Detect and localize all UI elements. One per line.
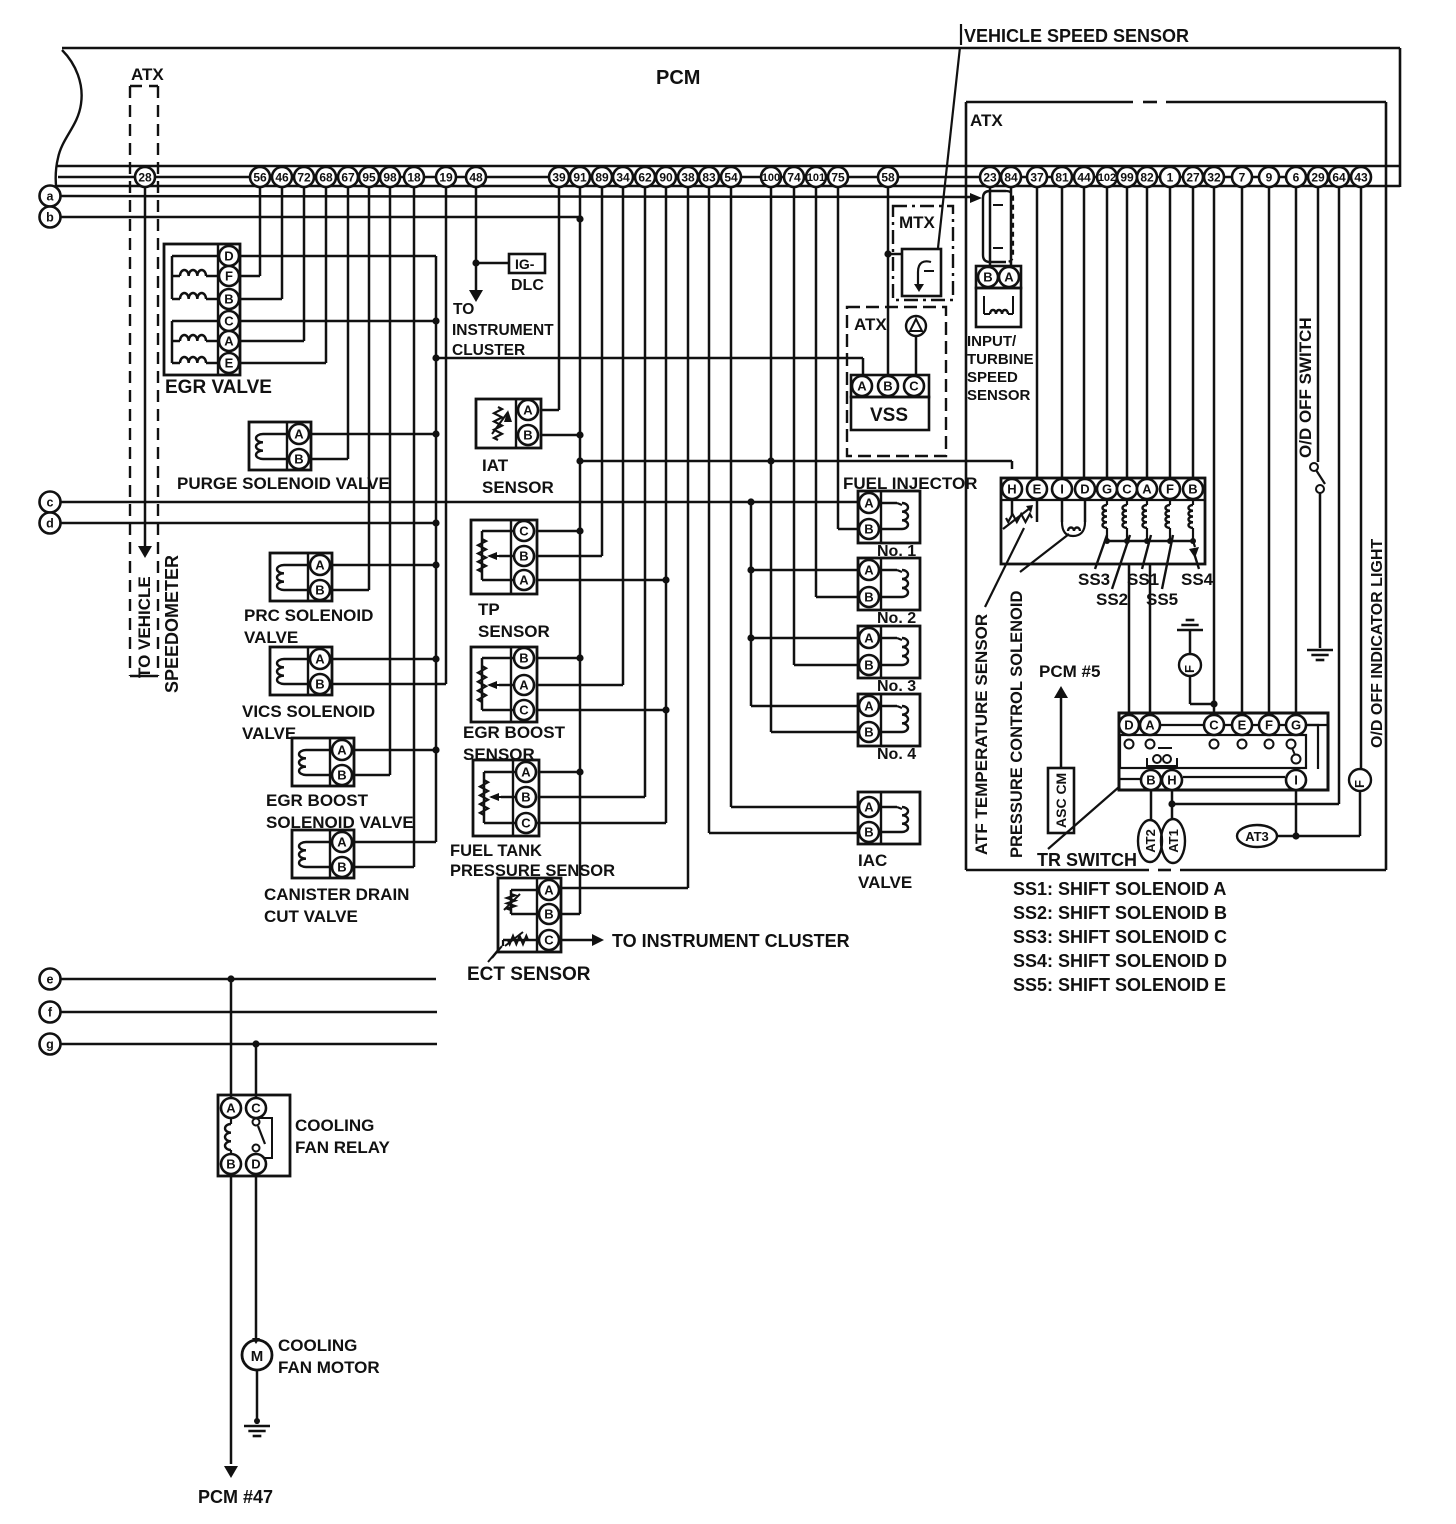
svg-text:7: 7 xyxy=(1239,170,1246,184)
svg-text:O/D OFF INDICATOR LIGHT: O/D OFF INDICATOR LIGHT xyxy=(1369,539,1386,748)
svg-text:100: 100 xyxy=(762,172,780,184)
wire: TR I to AT3 line xyxy=(1292,790,1299,840)
PCM pin 102 xyxy=(1097,167,1117,187)
TR switch pin E xyxy=(1232,715,1252,735)
fuel injector No. 4 pin A xyxy=(859,696,879,716)
shift solenoid coil under A xyxy=(1143,499,1151,544)
PRC solenoid valve box xyxy=(270,553,332,601)
svg-text:SENSOR: SENSOR xyxy=(967,387,1031,404)
input/turbine connector strip xyxy=(976,266,1021,288)
PCM pin 81 xyxy=(1052,167,1072,187)
wire: fan motor to ground xyxy=(254,1370,260,1424)
svg-text:81: 81 xyxy=(1055,170,1069,184)
svg-text:101: 101 xyxy=(807,172,825,184)
SS5 label xyxy=(1146,590,1178,609)
PCM pin 56 xyxy=(250,167,270,187)
svg-text:67: 67 xyxy=(341,170,355,184)
TP pin C xyxy=(514,521,534,541)
ASC CM box xyxy=(1048,768,1074,833)
svg-text:No. 2: No. 2 xyxy=(877,610,916,627)
TR switch pin C xyxy=(1204,715,1224,735)
VICS solenoid pin B xyxy=(310,674,330,694)
TR switch contact at x=1242 xyxy=(1238,740,1247,749)
PCM pin 58 xyxy=(878,167,898,187)
PCM pin 74 xyxy=(784,167,804,187)
PCM pin 48 xyxy=(466,167,486,187)
svg-text:A: A xyxy=(864,800,874,815)
PCM pin 27 xyxy=(1183,167,1203,187)
svg-text:B: B xyxy=(523,428,532,443)
svg-text:44: 44 xyxy=(1077,170,1091,184)
ECT pin C xyxy=(539,930,559,950)
svg-text:ATX: ATX xyxy=(970,111,1003,130)
svg-text:A: A xyxy=(1142,482,1152,497)
O/D OFF INDICATOR LIGHT label (vertical) xyxy=(1369,539,1386,748)
wire: VICS A to power node xyxy=(332,655,440,662)
EGR valve pin E xyxy=(219,353,239,373)
SS1 label xyxy=(1127,570,1159,589)
fuel injector No. 2 box xyxy=(858,558,920,610)
svg-text:F: F xyxy=(225,269,233,284)
PCM pin 90 xyxy=(656,167,676,187)
MTX speedometer pickup box xyxy=(902,249,941,296)
SS5 pointer xyxy=(1162,535,1173,589)
svg-text:C: C xyxy=(519,703,529,718)
ECT sensor box xyxy=(498,878,561,952)
PRC solenoid pin A xyxy=(310,555,330,575)
wire: EGR D to power node xyxy=(240,255,436,258)
MTX box (dash-dot) xyxy=(893,206,953,300)
TR switch pin I xyxy=(1286,770,1306,790)
wire: ASC CM to PCM #5 (arrow up) xyxy=(1054,686,1068,768)
svg-text:37: 37 xyxy=(1030,170,1044,184)
svg-text:B: B xyxy=(864,658,873,673)
canister drain cut valve box xyxy=(292,830,354,878)
cooling fan relay box xyxy=(218,1095,290,1176)
svg-text:95: 95 xyxy=(362,170,376,184)
wire: pin 72 to EGR A xyxy=(240,187,304,341)
IAC pin A xyxy=(859,797,879,817)
svg-text:INSTRUMENT: INSTRUMENT xyxy=(452,322,554,339)
AT2 oval xyxy=(1138,820,1162,862)
svg-text:G: G xyxy=(1291,718,1301,733)
wire: pin 29 to O/D off switch xyxy=(1317,187,1320,462)
EGR valve pin C xyxy=(219,311,239,331)
wire: injector supply chain xyxy=(747,502,858,706)
wire: pin 48 to IG-DLC and instrument cluster xyxy=(469,187,509,302)
svg-text:C: C xyxy=(1209,718,1219,733)
wire: pin 6 to TR G xyxy=(1295,187,1298,715)
PCM pin 72 xyxy=(294,167,314,187)
input/turbine pin A xyxy=(999,267,1019,287)
svg-text:90: 90 xyxy=(659,170,673,184)
wire: circled F to TR switch C xyxy=(1190,676,1218,708)
wire: pin 83 to IAC B xyxy=(709,187,858,833)
VICS solenoid valve box xyxy=(270,647,332,695)
svg-text:A: A xyxy=(523,403,533,418)
PCM pin 95 xyxy=(359,167,379,187)
wire: pin 56 to EGR F xyxy=(240,187,260,276)
TP pin B xyxy=(514,546,534,566)
wire: pin 18 to canister B xyxy=(354,187,414,867)
svg-text:b: b xyxy=(46,211,54,225)
svg-text:A: A xyxy=(224,334,234,349)
wire: EGR C to power node xyxy=(240,317,440,324)
svg-text:SS5: SHIFT SOLENOID E: SS5: SHIFT SOLENOID E xyxy=(1013,975,1226,995)
wire: pin 43 to O/D indicator lamp xyxy=(1360,187,1363,769)
fuel injector No. 3 pin A xyxy=(859,628,879,648)
VICS solenoid pin A xyxy=(310,649,330,669)
shift solenoid coil under F xyxy=(1166,499,1174,544)
svg-text:62: 62 xyxy=(638,170,652,184)
svg-text:6: 6 xyxy=(1293,170,1300,184)
wire: pin 102 to block G xyxy=(1106,187,1109,479)
wire: pin 27 to block B xyxy=(1192,187,1195,479)
EGR BOOST SOLENOID VALVE label xyxy=(266,791,414,832)
pressure control solenoid pointer xyxy=(1020,534,1069,572)
fuel injector No. 4 label xyxy=(877,746,916,763)
wire: pin 74 to injector No.3 B xyxy=(794,187,858,665)
EGR BOOST SENSOR label xyxy=(463,723,566,764)
svg-text:C: C xyxy=(519,524,529,539)
svg-text:IAT: IAT xyxy=(482,456,509,475)
cooling fan relay pin B xyxy=(221,1154,241,1174)
EGR boost solenoid pin B xyxy=(332,765,352,785)
VSS body box xyxy=(851,397,929,430)
circled F (left) xyxy=(1179,654,1201,676)
svg-text:B: B xyxy=(519,549,528,564)
svg-text:B: B xyxy=(883,379,892,394)
svg-text:AT3: AT3 xyxy=(1245,829,1269,844)
svg-text:A: A xyxy=(1145,718,1155,733)
wire: PRC A to power node xyxy=(332,561,440,568)
ATX box (VSS, dashed) xyxy=(847,307,946,456)
svg-text:DLC: DLC xyxy=(511,277,544,294)
wire: TR H to AT1 and pin 64 xyxy=(1168,790,1175,819)
svg-text:G: G xyxy=(1102,482,1112,497)
svg-text:H: H xyxy=(1007,482,1016,497)
PCM label xyxy=(656,67,700,89)
svg-text:82: 82 xyxy=(1140,170,1154,184)
svg-text:PRC SOLENOID: PRC SOLENOID xyxy=(244,606,373,625)
wire: pin 90 vref vertical xyxy=(537,187,666,823)
svg-text:B: B xyxy=(337,860,346,875)
SS2 pointer xyxy=(1112,535,1130,589)
cooling fan relay coil xyxy=(225,1118,231,1154)
EGR boost sensor box xyxy=(471,647,537,722)
svg-text:38: 38 xyxy=(681,170,695,184)
svg-text:75: 75 xyxy=(831,170,845,184)
wire: pin 98 to EGR boost sol B xyxy=(354,187,390,775)
wire: EGR boost sol A to power node xyxy=(354,746,440,753)
svg-text:VEHICLE SPEED SENSOR: VEHICLE SPEED SENSOR xyxy=(964,26,1189,46)
svg-text:B: B xyxy=(519,651,528,666)
cooling fan motor xyxy=(242,1340,272,1370)
wire: pin 100 to injector No.4 B xyxy=(771,187,858,732)
svg-text:TO INSTRUMENT CLUSTER: TO INSTRUMENT CLUSTER xyxy=(612,931,850,951)
svg-text:56: 56 xyxy=(253,170,267,184)
wire: relay D to fan motor xyxy=(252,1176,260,1344)
fuel injector No. 4 pin B xyxy=(859,722,879,742)
svg-text:TO: TO xyxy=(453,301,474,318)
solenoid block pin E xyxy=(1027,479,1047,499)
svg-text:A: A xyxy=(519,678,529,693)
TR SWITCH label xyxy=(1037,850,1137,870)
svg-text:A: A xyxy=(857,379,867,394)
cooling fan relay pin D xyxy=(246,1154,266,1174)
ECT pin A xyxy=(539,880,559,900)
wire: pin 38 to ECT A xyxy=(561,187,688,888)
TR switch contact at x=1214 xyxy=(1210,740,1219,749)
svg-text:B: B xyxy=(1188,482,1197,497)
svg-text:TR SWITCH: TR SWITCH xyxy=(1037,850,1137,870)
svg-text:74: 74 xyxy=(787,170,801,184)
IAC pin B xyxy=(859,822,879,842)
EGR boost solenoid pin A xyxy=(332,740,352,760)
TR switch pin D xyxy=(1119,715,1139,735)
svg-text:PURGE SOLENOID VALVE: PURGE SOLENOID VALVE xyxy=(177,474,390,493)
fuel tank pin C xyxy=(516,813,536,833)
PCM pin 89 xyxy=(592,167,612,187)
svg-text:C: C xyxy=(544,933,554,948)
wire: pin 23 to turbine B xyxy=(989,187,992,266)
wire: return rail to solenoid block H xyxy=(576,457,1012,469)
EGR valve pin B xyxy=(219,289,239,309)
wire: TP C to sensor-return net xyxy=(537,527,584,534)
solenoid block pin H xyxy=(1002,479,1022,499)
TR switch selector contact G xyxy=(1287,740,1301,764)
IG-DLC box xyxy=(509,254,545,273)
svg-text:F: F xyxy=(1265,718,1273,733)
svg-text:83: 83 xyxy=(702,170,716,184)
svg-text:32: 32 xyxy=(1207,170,1221,184)
solenoid block pin B xyxy=(1183,479,1203,499)
svg-text:E: E xyxy=(225,356,234,371)
shift solenoid coil under G xyxy=(1103,499,1111,544)
wire: g rail to relay C xyxy=(255,1044,258,1098)
svg-text:AT2: AT2 xyxy=(1143,829,1158,853)
legend SS5: xyxy=(1013,975,1226,995)
svg-text:c: c xyxy=(47,496,54,510)
svg-text:91: 91 xyxy=(573,170,587,184)
ATF temperature sensor element xyxy=(1003,499,1037,529)
input/turbine sensor rotor xyxy=(983,191,1013,262)
wire: purge A to power node xyxy=(311,430,440,437)
svg-text:1: 1 xyxy=(1167,170,1174,184)
svg-text:B: B xyxy=(864,825,873,840)
PCM pin 44 xyxy=(1074,167,1094,187)
EGR valve coil F xyxy=(172,270,219,276)
fuel injector No. 3 label xyxy=(877,678,916,695)
PCM pin 6 xyxy=(1286,167,1306,187)
svg-text:VALVE: VALVE xyxy=(858,873,912,892)
SS3 pointer xyxy=(1095,535,1107,569)
ATX label (left) xyxy=(131,65,164,84)
O/D OFF SWITCH label (vertical) xyxy=(1296,317,1315,458)
PCM pin 83 xyxy=(699,167,719,187)
solenoid block pin G xyxy=(1097,479,1117,499)
svg-text:B: B xyxy=(294,452,303,467)
wire: EGR boost B to sensor-return net xyxy=(537,654,584,661)
wire: pin 64 down and across to AT1 node xyxy=(1172,187,1339,804)
IG- label xyxy=(515,256,535,272)
PCM pin 38 xyxy=(678,167,698,187)
wire b: to sensor-return net xyxy=(61,215,584,222)
cooling fan relay contact xyxy=(253,1118,273,1158)
PCM pin 18 xyxy=(404,167,424,187)
PCM pin 68 xyxy=(316,167,336,187)
svg-text:B: B xyxy=(1146,773,1155,788)
svg-text:SENSOR: SENSOR xyxy=(482,478,554,497)
svg-text:F: F xyxy=(1166,482,1174,497)
cooling fan relay pin A xyxy=(221,1098,241,1118)
wire: AT3 to O/D indicator lamp xyxy=(1277,791,1360,836)
FUEL TANK PRESSURE SENSOR label xyxy=(450,842,615,880)
svg-text:B: B xyxy=(315,677,324,692)
svg-text:FAN MOTOR: FAN MOTOR xyxy=(278,1358,380,1377)
svg-text:VSS: VSS xyxy=(870,405,908,426)
EGR valve pin F xyxy=(219,266,239,286)
PCM pin 100 xyxy=(761,167,781,187)
node f (circled) xyxy=(40,1002,61,1023)
svg-text:M: M xyxy=(251,1348,264,1365)
wire: sensor-return to ECT B xyxy=(561,913,580,916)
node a (circled) xyxy=(40,186,61,207)
canister valve pin A xyxy=(332,832,352,852)
PCM pin 54 xyxy=(721,167,741,187)
svg-text:F: F xyxy=(1352,780,1367,788)
fuel injector No. 4 box xyxy=(858,694,920,746)
wire: pin 81 to block I xyxy=(1061,187,1064,479)
AT3 oval xyxy=(1237,825,1277,847)
shift solenoid common return xyxy=(1107,541,1199,558)
solenoid block pin A xyxy=(1137,479,1157,499)
PURGE SOLENOID VALVE label xyxy=(177,474,390,493)
MTX label xyxy=(899,213,936,232)
PCM pin 28 xyxy=(135,167,155,187)
pressure control solenoid coil xyxy=(1062,499,1085,536)
fuel injector No. 2 pin B xyxy=(859,587,879,607)
EGR valve internal common D-C xyxy=(172,256,219,363)
PCM pin 98 xyxy=(380,167,400,187)
PCM pin 43 xyxy=(1351,167,1371,187)
EGR valve coil A xyxy=(172,335,219,341)
PCM pin bus lines xyxy=(57,166,1400,186)
svg-text:IAC: IAC xyxy=(858,851,887,870)
TP pin A xyxy=(514,570,534,590)
svg-text:A: A xyxy=(315,652,325,667)
node e (circled) xyxy=(40,969,61,990)
wire: pin 82 to block A xyxy=(1146,187,1149,479)
input/turbine pin B xyxy=(978,267,998,287)
wire: block to TR A xyxy=(1149,564,1152,715)
wire a: to input/turbine speed sensor xyxy=(61,193,982,203)
COOLING FAN RELAY label xyxy=(295,1116,390,1157)
IAT SENSOR label xyxy=(482,456,554,497)
SS4 label xyxy=(1181,570,1214,589)
svg-text:B: B xyxy=(521,790,530,805)
svg-text:CLUSTER: CLUSTER xyxy=(452,342,525,359)
solenoid block pin C xyxy=(1117,479,1137,499)
node c (circled) xyxy=(40,492,61,513)
svg-text:C: C xyxy=(521,816,531,831)
VSS connector strip xyxy=(851,375,929,397)
svg-text:89: 89 xyxy=(595,170,609,184)
wire: canister A to power node xyxy=(354,841,436,844)
IAT thermistor xyxy=(492,407,512,440)
TP sensor box xyxy=(471,520,537,594)
svg-text:PRESSURE CONTROL SOLENOID: PRESSURE CONTROL SOLENOID xyxy=(1008,591,1026,858)
ECT SENSOR label xyxy=(467,964,591,985)
TR switch G bend xyxy=(1306,725,1318,769)
ECT case hatch xyxy=(488,946,502,962)
wire: pin 101 to injector No.2 B xyxy=(816,187,858,597)
svg-text:B: B xyxy=(337,768,346,783)
svg-text:B: B xyxy=(864,725,873,740)
svg-text:99: 99 xyxy=(1120,170,1134,184)
svg-text:g: g xyxy=(46,1038,54,1052)
svg-text:23: 23 xyxy=(983,170,997,184)
PCM pin 1 xyxy=(1160,167,1180,187)
svg-text:e: e xyxy=(47,973,54,987)
input/turbine sensor body xyxy=(976,288,1021,327)
svg-text:VALVE: VALVE xyxy=(244,628,298,647)
wire: pin 89 to TP B xyxy=(537,187,602,556)
svg-text:A: A xyxy=(864,563,874,578)
wire: pin 32 to TR switch C xyxy=(1213,187,1216,715)
fuel injector No. 1 box xyxy=(858,491,920,543)
SS2 label xyxy=(1096,590,1128,609)
TR switch contact at x=1150 xyxy=(1146,740,1155,749)
TR switch pin F xyxy=(1259,715,1279,735)
INPUT/TURBINE SPEED SENSOR label xyxy=(967,333,1034,404)
EGR valve coil B xyxy=(172,293,219,299)
TR switch pin G xyxy=(1286,715,1306,735)
VICS SOLENOID VALVE label xyxy=(242,702,375,743)
VSS pin A xyxy=(852,376,872,396)
wire: pin 19 to VICS B xyxy=(332,187,446,684)
TP SENSOR label xyxy=(478,600,550,641)
svg-text:64: 64 xyxy=(1332,170,1346,184)
svg-text:C: C xyxy=(909,379,919,394)
purge solenoid pin B xyxy=(289,449,309,469)
ATX label (VSS) xyxy=(854,315,887,334)
svg-text:B: B xyxy=(544,907,553,922)
wire: pin 34 to EGR boost A xyxy=(537,187,623,685)
TR switch box xyxy=(1119,713,1328,790)
shift solenoid coil under B xyxy=(1189,499,1197,544)
O/D off switch symbol xyxy=(1310,463,1325,493)
svg-text:B: B xyxy=(864,522,873,537)
TO INSTRUMENT CLUSTER label (left) xyxy=(452,301,554,359)
PCM #47 label xyxy=(198,1487,273,1507)
wire: pin 84 to turbine A xyxy=(1010,187,1013,266)
PCM pin 99 xyxy=(1117,167,1137,187)
svg-text:A: A xyxy=(521,765,531,780)
PCM pin 23 xyxy=(980,167,1000,187)
EGR boost sensor pin B xyxy=(514,648,534,668)
svg-text:D: D xyxy=(251,1157,260,1172)
PRC solenoid pin B xyxy=(310,580,330,600)
svg-text:29: 29 xyxy=(1311,170,1325,184)
wire: pin 54 to IAC A xyxy=(731,187,858,807)
svg-text:COOLING: COOLING xyxy=(295,1116,374,1135)
svg-text:SS4: SS4 xyxy=(1181,570,1214,589)
SS3 label xyxy=(1078,570,1110,589)
svg-text:EGR BOOST: EGR BOOST xyxy=(463,723,566,742)
PCM pin 75 xyxy=(828,167,848,187)
svg-text:A: A xyxy=(864,496,874,511)
